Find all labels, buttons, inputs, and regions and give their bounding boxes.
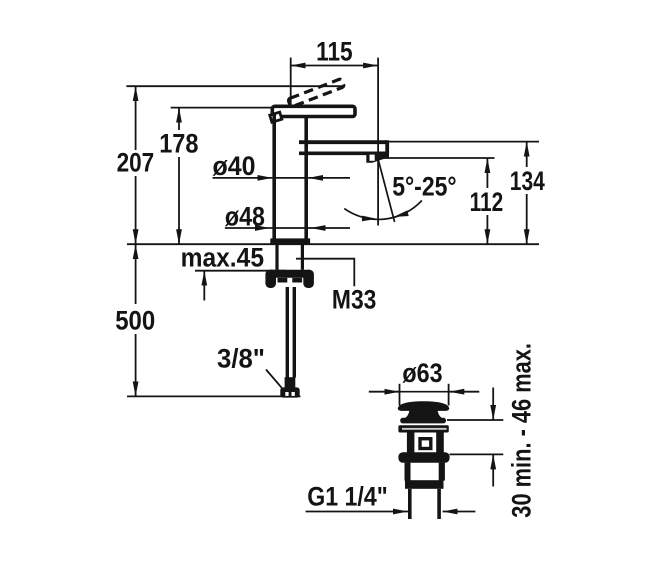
node ø48 inner segment [270,227,311,229]
faucet hose connector notch left [285,392,288,396]
node G1-1/4 dimension line right [443,511,476,513]
node ø40 inner segment [272,177,308,179]
drain overflow slot [420,439,431,449]
node 207 top extension line [126,85,344,87]
node clamp arrow lower [492,454,494,486]
node 134 dimension line lower [526,194,528,244]
svg-text:ø48: ø48 [225,202,265,232]
svg-text:30 min. - 46 max.: 30 min. - 46 max. [507,343,537,518]
node ø48 dimension line left [225,227,270,229]
node 3/8 leader line [266,370,283,390]
node ø63 left extension line [399,384,401,406]
node ø48 dimension line right [311,227,351,229]
drain dome stem [405,410,443,419]
node 134 extension line [389,141,539,143]
node M33 leader line [296,259,354,287]
faucet hose nipple left [278,278,288,283]
faucet supply hose left [286,287,289,378]
faucet base flange [270,238,310,244]
faucet mounting nut left lobe [265,270,276,288]
drain neck right bar [436,432,444,452]
drain thread left side [405,463,411,481]
svg-text:5°-25°: 5°-25° [392,172,456,202]
faucet handle front tip [270,112,282,122]
drain tailpipe right [437,489,441,519]
node ø40 dimension line left [213,177,273,179]
faucet handle raised position (dashed) [288,79,345,108]
svg-text:112: 112 [470,187,504,217]
node clamp arrow upper [492,388,494,421]
faucet threaded shank right [301,244,304,269]
svg-text:M33: M33 [332,284,377,314]
faucet handle lever [272,106,355,116]
node 178 dimension line lower [178,157,180,244]
node 115 dimension line left arrow [291,65,334,67]
node max45 arrow [203,271,205,301]
node 207 dimension line lower [135,176,137,244]
faucet spout end cap [385,140,389,153]
faucet supply hose right [293,287,296,378]
node G1-1/4 dimension line left [306,511,408,513]
node angle arc left arrowhead [362,216,377,222]
svg-text:207: 207 [117,148,155,178]
node clamp lower tick [450,453,504,455]
drain thread right side [439,463,445,481]
faucet mounting nut body [268,270,311,278]
node 115 right extension line [377,58,379,226]
svg-text:134: 134 [510,166,545,196]
node ø63 right extension line [448,384,450,406]
svg-text:115: 115 [316,37,353,67]
node 115 left extension line [290,58,292,107]
faucet body left edge [272,115,276,240]
node ø63 dimension line left [369,391,400,393]
drain tailpipe left [408,489,412,519]
faucet spout bottom line [299,152,388,156]
wire lower reference line (hose end level) [127,395,301,397]
drain lower flange [398,425,448,432]
faucet spout top line [299,140,387,144]
node 112 dimension line upper [486,158,488,188]
node 112 dimension line lower [486,215,488,244]
faucet hose connector notch right [292,392,295,396]
node ø63 dimension line right [449,391,479,393]
drain thread bottom band [405,480,444,489]
node 207 dimension line upper [135,86,137,150]
node 115 dimension line right arrow [334,65,378,67]
svg-text:G1 1/4": G1 1/4" [307,482,388,512]
node 112 extension line [384,157,495,159]
faucet spout outlet [366,152,389,163]
node 134 dimension line upper [526,142,528,167]
drain collar [398,452,449,463]
node angle arc [344,200,422,219]
svg-text:178: 178 [159,129,198,159]
node angle pivot line (slanted) [378,160,394,222]
node 178 extension line [171,107,276,109]
faucet hose connector lower [280,387,299,397]
drain neck left bar [407,432,415,452]
node max45 level line [195,270,286,272]
svg-text:max.45: max.45 [181,242,264,272]
svg-text:ø40: ø40 [213,151,256,181]
drain dome cap [398,401,449,411]
node clamp upper tick [447,419,503,421]
node angle arc right arrowhead [394,210,409,217]
wire countertop line [127,243,539,245]
node 178 dimension line upper [178,108,180,130]
svg-text:3/8": 3/8" [217,344,265,374]
faucet threaded shank left [275,244,278,269]
node 500 dimension line upper [135,244,137,304]
svg-text:500: 500 [115,306,155,336]
drain upper flange [400,418,446,424]
faucet mounting nut right lobe [303,270,314,288]
faucet hose nipple right [292,278,302,283]
svg-text:ø63: ø63 [402,358,442,388]
faucet body right edge [304,117,308,240]
node 500 dimension line lower [135,334,137,396]
node ø40 dimension line right [308,177,350,179]
drain lower flange stripe [402,428,447,430]
node ø63 inner segment [399,391,448,393]
faucet hose connector upper [285,377,296,387]
